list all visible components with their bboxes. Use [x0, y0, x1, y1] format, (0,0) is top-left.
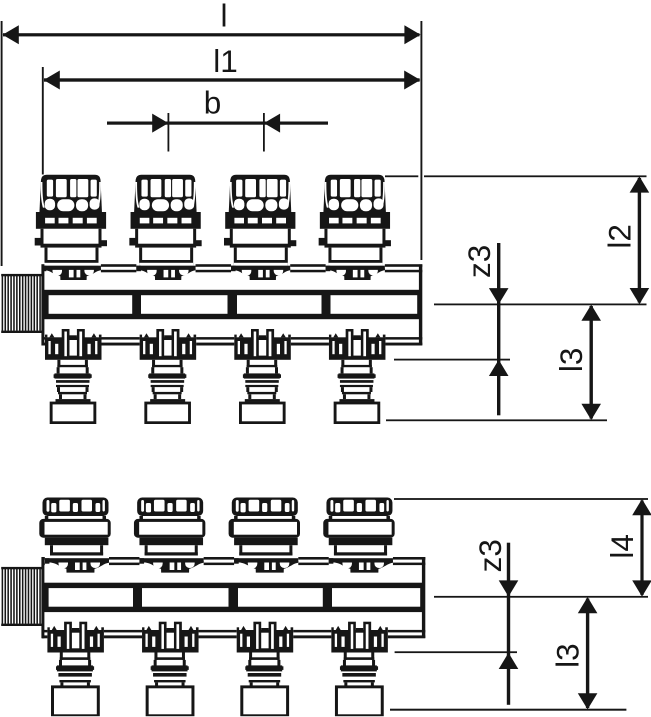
outlet connector 4 with union nut (bottom view): [331, 622, 388, 717]
threaded pipe end (top view): [1, 274, 41, 333]
valve protection cap 2 (bottom view): [134, 498, 205, 573]
svg-text:l: l: [221, 0, 228, 34]
outlet connector 4 with union nut (top view): [329, 329, 386, 424]
reference line outlet shoulder (bottom view): [395, 651, 517, 653]
outlet connector 2 with union nut (bottom view): [142, 622, 199, 717]
hand-wheel valve 2 (top view): [129, 175, 201, 280]
valve protection cap 4 (bottom view): [323, 498, 394, 573]
outlet connector 1 with union nut (bottom view): [47, 622, 104, 717]
svg-text:l3: l3: [553, 348, 589, 373]
valve protection cap 1 (bottom view): [39, 498, 110, 573]
reference line handwheel top (top view): [385, 175, 647, 177]
valve protection cap 3 (bottom view): [229, 498, 300, 573]
dimension l2 with arrows: [630, 176, 650, 304]
label b: [204, 85, 222, 121]
manifold body (top view): [41, 264, 422, 345]
label l: [221, 0, 228, 34]
dimension l3 (bottom view) with arrows: [578, 597, 598, 709]
dimension line l with arrows: [3, 25, 421, 44]
label l3 (top view): [553, 348, 589, 373]
dimension b: line, ticks and arrows: [107, 113, 328, 152]
dimension z3 (top view) with arrows: [489, 243, 509, 415]
svg-text:b: b: [204, 85, 222, 121]
dimension extension line right (l and l1): [420, 21, 422, 260]
svg-text:l4: l4: [604, 534, 640, 559]
dimension extension line left (l): [1, 21, 3, 266]
outlet connector 2 with union nut (top view): [140, 329, 197, 424]
hand-wheel valve 1 (top view): [35, 175, 107, 280]
reference line nut bottom (top view): [386, 419, 607, 421]
label l3 (bottom view): [550, 643, 586, 668]
dimension l3 (top view) with arrows: [581, 305, 601, 420]
reference line body axis (top view): [434, 304, 647, 306]
manifold body (bottom view): [41, 557, 425, 638]
dimension z3 (bottom view) with arrows: [499, 543, 519, 705]
dimension line l1 with arrows: [44, 71, 421, 90]
reference line outlet shoulder (top view): [394, 359, 510, 361]
outlet connector 1 with union nut (top view): [45, 329, 102, 424]
svg-text:l1: l1: [213, 43, 238, 79]
threaded pipe end (bottom view): [1, 567, 41, 626]
label z3 (bottom view): [472, 539, 508, 572]
label l4: [604, 534, 640, 559]
svg-text:z3: z3: [472, 539, 508, 572]
svg-text:z3: z3: [461, 245, 497, 278]
reference line cap top (bottom view): [394, 498, 648, 500]
svg-text:l3: l3: [550, 643, 586, 668]
outlet connector 3 with union nut (top view): [234, 329, 291, 424]
reference line body axis (bottom view): [434, 596, 648, 598]
reference line nut bottom (bottom view): [390, 709, 626, 711]
dimension extension line l1: [42, 67, 44, 175]
hand-wheel valve 4 (top view): [319, 175, 391, 280]
hand-wheel valve 3 (top view): [224, 175, 296, 280]
label z3 (top view): [461, 245, 497, 278]
dimension l4 with arrows: [632, 499, 651, 597]
label l1: [213, 43, 238, 79]
label l2: [602, 224, 638, 249]
svg-text:l2: l2: [602, 224, 638, 249]
outlet connector 3 with union nut (bottom view): [237, 622, 294, 717]
